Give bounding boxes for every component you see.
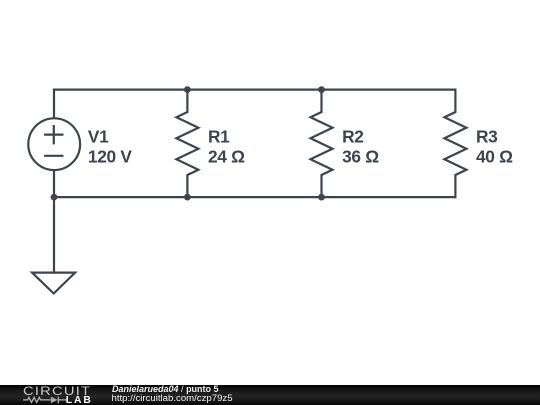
svg-text:V1: V1 <box>88 126 109 146</box>
svg-text:24 Ω: 24 Ω <box>208 147 245 167</box>
svg-text:R3: R3 <box>476 126 498 146</box>
svg-text:R2: R2 <box>342 126 364 146</box>
svg-text:40 Ω: 40 Ω <box>476 147 513 167</box>
svg-text:120 V: 120 V <box>88 147 132 167</box>
svg-text:36 Ω: 36 Ω <box>342 147 379 167</box>
svg-text:R1: R1 <box>208 126 230 146</box>
